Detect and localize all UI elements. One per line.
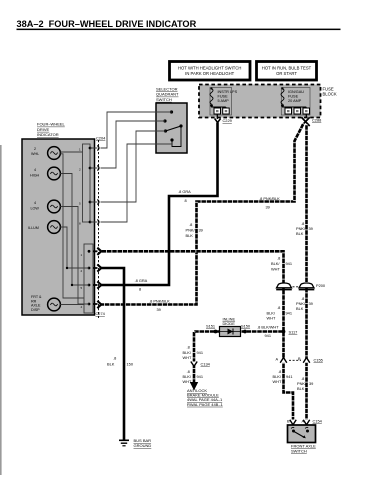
svg-text:2: 2 <box>34 147 36 151</box>
svg-text:941: 941 <box>286 374 293 379</box>
bulb 4 LOW <box>31 200 61 213</box>
wire PNK/BLK 39 branch to indicator (striped) <box>101 124 304 305</box>
svg-text:BLK: BLK <box>107 362 115 367</box>
ABS module arrow <box>190 382 198 391</box>
svg-text:B: B <box>298 356 301 361</box>
bus bar ground symbol <box>119 440 129 446</box>
svg-text:IN PARK OR HEADLIGHT: IN PARK OR HEADLIGHT <box>185 71 234 76</box>
pass-through P200 <box>276 283 326 290</box>
four wheel drive indicator box <box>22 122 95 315</box>
wire PNK/BLK 39 vertical to front axle switch (striped) <box>305 125 308 420</box>
heavy pins <box>97 248 101 255</box>
svg-text:C154: C154 <box>313 419 323 424</box>
svg-text:941: 941 <box>265 333 272 338</box>
title rule <box>17 29 341 31</box>
svg-text:DIODE: DIODE <box>223 321 236 326</box>
svg-text:.8 BLK/WHT: .8 BLK/WHT <box>257 325 279 330</box>
svg-text:BLOCK: BLOCK <box>323 92 337 97</box>
thin pins <box>97 146 99 151</box>
svg-text:.8 PNK/BLK: .8 PNK/BLK <box>259 196 280 201</box>
splice S151 <box>214 330 218 334</box>
wire bulb1 to rail <box>60 152 84 298</box>
connector C134 <box>191 362 211 367</box>
bulb FRT &amp; RR AXLE DISP <box>31 295 60 312</box>
svg-text:39: 39 <box>157 307 161 312</box>
thin wire pin1 to switch <box>101 112 172 148</box>
svg-text:5 AMP: 5 AMP <box>218 99 230 103</box>
svg-text:RWAL PAGE 44B–1: RWAL PAGE 44B–1 <box>187 402 224 407</box>
svg-text:C155: C155 <box>314 358 323 363</box>
svg-text:4: 4 <box>34 168 36 172</box>
wire BLK/WHT diode run (striped) <box>194 332 284 384</box>
svg-text:WHL: WHL <box>31 152 39 156</box>
svg-text:S117: S117 <box>289 330 298 335</box>
wire BLK 150 ground (thick black) <box>101 268 124 440</box>
svg-text:WHT: WHT <box>267 316 276 321</box>
header box HOT IN RUN <box>257 62 317 81</box>
indicator internal wiring <box>60 144 97 313</box>
svg-text:FUSE: FUSE <box>288 95 299 99</box>
svg-text:.8: .8 <box>277 256 280 261</box>
svg-text:SWITCH: SWITCH <box>156 97 172 102</box>
bulb 4 HIGH <box>30 167 60 180</box>
svg-text:A: A <box>276 357 279 362</box>
fuse INSTR LPS 5A <box>210 87 238 115</box>
svg-text:20 AMP: 20 AMP <box>288 99 302 103</box>
connector C229 <box>215 114 232 123</box>
pin stubs <box>90 148 98 222</box>
svg-text:38A–2 FOUR–WHEEL DRIVE INDICA: 38A–2 FOUR–WHEEL DRIVE INDICATOR <box>17 19 197 29</box>
header box HOT WITH HEADLIGHT SWITCH <box>170 62 251 81</box>
svg-text:HIGH: HIGH <box>30 174 40 178</box>
svg-text:39: 39 <box>199 228 203 233</box>
svg-text:C204: C204 <box>96 136 106 141</box>
thin wire pin4 to switch <box>101 144 173 222</box>
svg-text:SWITCH: SWITCH <box>291 449 307 454</box>
bulb ILLUM <box>28 221 60 234</box>
svg-text:.8: .8 <box>187 345 190 350</box>
svg-text:39: 39 <box>266 204 270 209</box>
svg-text:.8: .8 <box>277 305 280 310</box>
svg-text:.8: .8 <box>189 222 192 227</box>
thin wire pin2 to switch <box>101 121 166 168</box>
svg-text:GROUND: GROUND <box>134 443 152 448</box>
svg-text:BLK/: BLK/ <box>271 261 280 266</box>
selector quadrant switch <box>156 87 187 154</box>
svg-text:.8 GRA: .8 GRA <box>178 189 191 194</box>
inline diode <box>220 317 241 337</box>
svg-text:C229: C229 <box>223 118 232 123</box>
svg-text:941: 941 <box>197 374 204 379</box>
wire bulb2 runs <box>60 174 89 286</box>
svg-text:BLK: BLK <box>296 231 304 236</box>
svg-text:150: 150 <box>127 362 134 367</box>
svg-text:C274: C274 <box>96 311 106 316</box>
svg-text:8: 8 <box>139 286 141 291</box>
svg-text:ILLUM: ILLUM <box>28 226 39 230</box>
splice S150 <box>243 330 247 334</box>
lower rail <box>84 244 93 313</box>
wire bulb4 runs <box>60 227 89 268</box>
svg-text:WHT: WHT <box>271 267 280 272</box>
page edge scan artifact <box>0 145 2 475</box>
svg-text:941: 941 <box>286 311 293 316</box>
connector C288 <box>302 114 322 126</box>
svg-text:8: 8 <box>185 198 187 203</box>
bulb 2 WHL <box>31 147 60 160</box>
svg-text:C288: C288 <box>312 118 321 123</box>
svg-text:P200: P200 <box>316 283 326 288</box>
thin wire pin3 to switch <box>101 131 166 202</box>
svg-text:39: 39 <box>309 226 313 231</box>
svg-text:LOW: LOW <box>31 207 40 211</box>
svg-text:PNK/: PNK/ <box>186 228 196 233</box>
splice S117 <box>282 330 286 334</box>
svg-text:BLK: BLK <box>296 306 304 311</box>
svg-text:C134: C134 <box>201 362 211 367</box>
svg-text:FUSE: FUSE <box>218 95 229 99</box>
front axle switch <box>288 425 317 454</box>
svg-text:4: 4 <box>34 201 36 205</box>
wire BLK/WHT 941 from indicator (striped) <box>101 251 284 357</box>
svg-text:BLK: BLK <box>297 386 305 391</box>
connector C155 <box>276 356 323 363</box>
svg-text:WHT: WHT <box>273 379 282 384</box>
svg-text:BLK: BLK <box>186 233 194 238</box>
wire bulb5 to rail <box>60 304 84 306</box>
svg-text:S150: S150 <box>241 324 251 329</box>
svg-text:941: 941 <box>197 350 204 355</box>
svg-text:39: 39 <box>309 301 313 306</box>
svg-text:DISP: DISP <box>31 308 40 312</box>
upper rail <box>83 144 91 222</box>
svg-text:.8: .8 <box>113 356 116 361</box>
connector C204 column <box>96 136 107 319</box>
svg-text:S151: S151 <box>206 324 215 329</box>
wire bulb3 runs <box>60 207 89 305</box>
svg-text:.8 PNK/BLK: .8 PNK/BLK <box>149 298 170 303</box>
fuse IGN/GAU 20A <box>281 87 310 115</box>
wire BLK/WHT C155 to switch <box>284 358 294 420</box>
svg-text:A: A <box>302 418 305 423</box>
svg-text:IGN/GAU: IGN/GAU <box>288 90 304 94</box>
svg-text:INSTR LPS: INSTR LPS <box>218 90 238 94</box>
wire GRA 8 (thick black) <box>101 123 218 286</box>
svg-text:.8 GRA: .8 GRA <box>135 278 148 283</box>
svg-text:OR START: OR START <box>276 71 297 76</box>
connector C154 <box>287 418 323 425</box>
svg-text:B: B <box>287 419 290 424</box>
svg-text:INDICATOR: INDICATOR <box>37 132 59 137</box>
fuse block box <box>199 85 337 118</box>
svg-text:941: 941 <box>286 261 293 266</box>
svg-text:39: 39 <box>309 381 313 386</box>
svg-text:WHT: WHT <box>183 355 192 360</box>
